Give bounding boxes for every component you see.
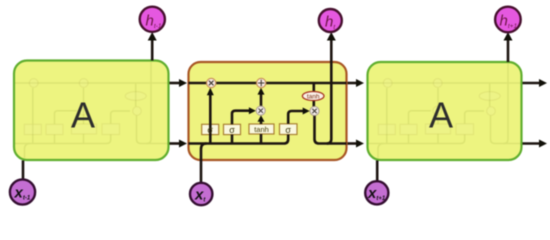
gate sigma2 <box>224 124 241 134</box>
wire center to right top <box>348 82 357 85</box>
wire riser sigma3 and curve to x3 <box>288 111 303 124</box>
node h_t <box>319 9 342 32</box>
module box A (t+1) <box>368 62 522 160</box>
wire h_t-1 output arrow stem <box>151 40 154 61</box>
svg-text:tanh: tanh <box>307 93 320 100</box>
wire riser tanh gate to x2 <box>260 121 263 144</box>
wire cell branch down through tanh oval to x3 <box>312 83 315 107</box>
svg-text:tanh: tanh <box>254 125 269 134</box>
node h_t+1 <box>495 7 521 33</box>
arrowhead h_t to circle <box>327 32 336 41</box>
arrowhead h_t-1 to circle <box>148 32 157 41</box>
wire cell-state line <box>23 40 539 184</box>
wire right module output bottom <box>523 142 540 145</box>
arrowhead into x3 from left <box>303 108 310 115</box>
svg-text:σ: σ <box>207 125 213 135</box>
wire left to center top <box>170 82 180 85</box>
pointwise plus <box>257 78 266 87</box>
gate sigma1 <box>202 124 219 134</box>
arrowhead center to right bottom <box>356 140 364 148</box>
arrowhead into plus <box>258 88 265 95</box>
arrowhead center to right top <box>356 79 364 87</box>
wire x2 to plus <box>260 95 263 107</box>
node h_t-1 <box>140 7 165 32</box>
arrowhead h_t+1 to circle <box>504 32 513 41</box>
wire x_t-1 input line <box>22 161 25 181</box>
arrowhead right output top <box>539 79 547 87</box>
arrowhead left to center top <box>179 79 187 87</box>
svg-text:σ: σ <box>285 125 291 135</box>
arrowhead into x2 from below <box>258 115 265 122</box>
node x_t+1 <box>365 181 388 204</box>
ghost internals right module <box>368 62 521 158</box>
pointwise x3 (output) <box>310 107 319 116</box>
wire h_t+1 output arrow stem <box>507 40 510 62</box>
wire riser sigma2 and curve to x2 <box>232 111 250 144</box>
svg-text:σ: σ <box>229 125 235 135</box>
gate sigma3 <box>280 124 298 135</box>
svg-text:A: A <box>429 95 453 136</box>
arrowhead right output bottom <box>539 140 547 148</box>
wire h_t riser up and out of box <box>327 40 332 144</box>
wire x_t+1 input line <box>376 161 379 183</box>
arrowheads <box>148 32 547 148</box>
wire center to right bottom <box>348 142 357 145</box>
wire x3 down to bottom line <box>315 115 347 143</box>
svg-text:A: A <box>71 95 95 136</box>
arrowhead into x1 <box>207 88 214 96</box>
wire riser to sigma1 and forget gate arrow <box>209 95 212 144</box>
arrowhead into x2 from left <box>249 107 256 114</box>
gate glyph overlays <box>207 125 291 135</box>
wire hidden-state bottom line <box>189 135 289 144</box>
node x_t-1 <box>10 179 35 204</box>
tanh oval <box>302 92 324 101</box>
wire x_t merge into bottom line <box>201 144 207 185</box>
gate tanh <box>249 124 274 134</box>
module box LSTM cell (t) <box>189 62 347 160</box>
pointwise x2 (input) <box>256 106 265 115</box>
wire right module output top <box>523 82 540 85</box>
wire left to center bottom <box>170 142 180 145</box>
node x_t <box>190 183 212 205</box>
arrowhead left to center bottom <box>179 140 187 148</box>
ghost internals left module <box>15 62 168 158</box>
pointwise x1 (forget) <box>207 78 216 87</box>
module box A (t-1) <box>14 61 169 161</box>
